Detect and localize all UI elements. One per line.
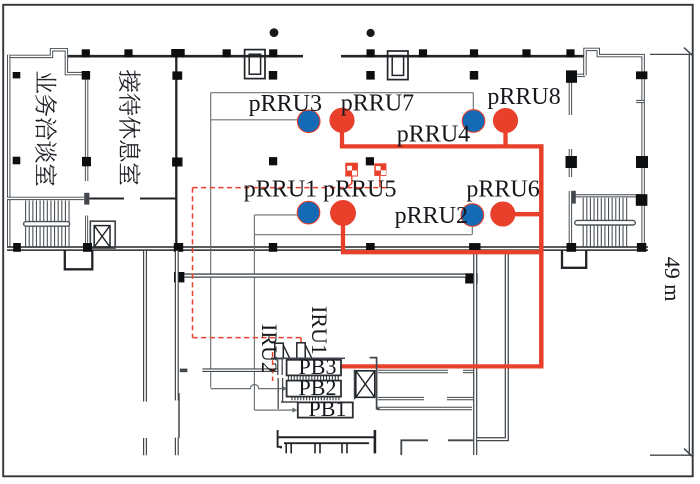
red dashed drop to IRU2	[272, 352, 274, 381]
PB2 box	[287, 381, 341, 397]
hall left wall	[175, 57, 177, 246]
svg-text:pRRU7: pRRU7	[341, 90, 414, 116]
room label 接待休息室	[119, 70, 140, 91]
wall below door	[85, 216, 88, 249]
dot marker left	[270, 28, 279, 37]
lobby wall with tick	[180, 369, 188, 373]
elevator left shaft	[90, 221, 115, 248]
right exterior wall	[641, 57, 644, 248]
feeder line into PB1	[254, 409, 292, 411]
door jamb	[84, 193, 89, 205]
pRRU4 unit	[462, 110, 485, 133]
door tick right wall	[636, 100, 644, 103]
lobby comb wall	[278, 430, 281, 448]
pRRU6 unit	[491, 202, 515, 226]
pRRU1 unit	[297, 201, 320, 224]
left corridor wall B	[175, 251, 179, 401]
pRRU5 unit	[331, 201, 356, 226]
interior wall jog to room divider	[66, 56, 86, 79]
room label 业务洽谈室	[37, 72, 56, 93]
hall bottom wall	[7, 246, 648, 251]
cable pRRU8 stem	[503, 128, 507, 146]
line to pRRU2	[254, 234, 471, 236]
lobby wall upper	[378, 370, 448, 373]
cable feed to PB3	[342, 364, 544, 368]
dot marker right	[367, 29, 375, 37]
IRU device 2	[297, 343, 305, 358]
columns bottom wall	[13, 243, 21, 252]
rooms bottom wall	[7, 197, 84, 200]
cable mid run	[341, 250, 541, 254]
corridor wall A	[473, 251, 477, 455]
right hall wall	[569, 79, 572, 115]
top wall right segment	[341, 55, 585, 58]
wall behind PB	[271, 357, 345, 359]
line to pRRU3	[211, 119, 298, 121]
PB1 box	[298, 402, 353, 417]
cable pRRU7 stem	[340, 128, 344, 146]
PB3 box	[287, 360, 341, 376]
cable trunk vertical	[539, 144, 544, 366]
shaft box left	[65, 250, 93, 269]
jog wall top right	[570, 74, 585, 77]
room divider wall	[85, 77, 88, 181]
svg-text:pRRU8: pRRU8	[487, 84, 560, 110]
elevator mid shaft	[354, 370, 356, 400]
svg-text:pRRU1 pRRU5: pRRU1 pRRU5	[244, 176, 397, 202]
corridor wall segs bottom	[378, 407, 473, 411]
column at corridor tee	[465, 273, 477, 283]
left corridor wall A	[143, 251, 147, 402]
shaft box right	[562, 250, 586, 268]
line to pRRU1	[254, 214, 297, 216]
corridor wall B	[477, 251, 507, 439]
frame left	[245, 50, 265, 79]
svg-text:IRU2: IRU2	[257, 324, 282, 373]
columns middle row	[13, 157, 21, 165]
pRRU2 unit	[461, 204, 484, 227]
svg-text:IRU1: IRU1	[307, 306, 332, 355]
lobby wall lower	[378, 397, 424, 400]
pRRU7 unit	[330, 108, 354, 132]
frame right	[388, 51, 408, 80]
left exterior wall	[7, 50, 66, 58]
cable top run	[340, 144, 541, 148]
big node column	[174, 272, 184, 282]
columns top wall	[82, 49, 90, 57]
svg-text:pRRU3: pRRU3	[249, 91, 322, 117]
svg-text:pRRU4: pRRU4	[397, 121, 470, 147]
lobby wall segs right	[401, 440, 428, 455]
dimension line 49 m	[688, 54, 690, 455]
PB left walls	[277, 360, 279, 376]
cable pRRU6 stub	[513, 212, 541, 216]
antenna icon 1	[345, 163, 358, 177]
elevator left car	[94, 226, 110, 247]
stairs left	[25, 201, 27, 247]
pRRU3 unit	[297, 110, 320, 133]
cable pRRU5 stem	[341, 222, 345, 252]
interior wall mid	[185, 273, 466, 277]
stairs right	[576, 194, 642, 197]
top-right notch wall	[585, 49, 643, 60]
elevator mid right wall	[370, 358, 380, 409]
top wall left segment	[67, 55, 304, 58]
IRU device 1	[275, 343, 284, 358]
antenna icon 2	[374, 163, 386, 176]
feeder line with hop into PB2	[211, 385, 283, 389]
columns below top wall	[82, 71, 90, 80]
comb strip 1	[287, 376, 289, 381]
svg-text:pRRU6: pRRU6	[466, 177, 539, 203]
comb strip 2	[291, 397, 293, 400]
svg-text:pRRU2: pRRU2	[395, 203, 468, 229]
red dashed cable route	[193, 187, 391, 189]
svg-text:PB1: PB1	[309, 396, 347, 421]
room boundary box	[211, 92, 474, 94]
pRRU8 unit	[494, 109, 518, 133]
svg-text:49 m: 49 m	[660, 257, 685, 302]
